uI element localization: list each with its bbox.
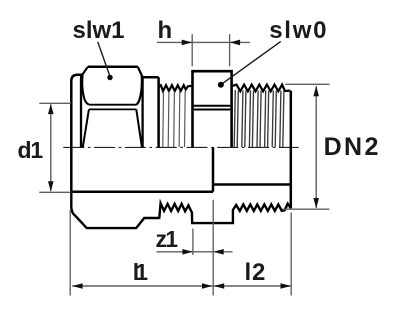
label DN2 xyxy=(324,133,381,162)
union nut collar xyxy=(71,75,82,192)
dimension l1 arrows xyxy=(72,283,212,289)
body bore bottom left xyxy=(71,190,213,193)
label l1 xyxy=(133,259,139,286)
dimension d1 extension lines xyxy=(39,103,71,192)
dimension z1 line xyxy=(157,251,233,253)
dimension l2 line xyxy=(214,285,291,287)
dimension h line xyxy=(157,41,250,43)
leader slw0 xyxy=(222,41,281,84)
dimension h arrows xyxy=(182,40,240,46)
dimension h extension lines xyxy=(192,34,229,66)
dimension d1 line xyxy=(50,105,52,191)
label z1 xyxy=(156,226,177,253)
union nut hex waist line upper xyxy=(89,104,136,106)
label h xyxy=(158,17,173,45)
union nut hex right chamfer xyxy=(138,67,143,77)
label l2 xyxy=(245,259,267,287)
body step shoulder xyxy=(143,76,159,79)
insert hex body xyxy=(193,71,232,147)
leader slw1 xyxy=(98,42,110,75)
nut skirt outline xyxy=(71,192,290,228)
dimension l1 extension line left xyxy=(69,210,71,296)
union nut hex right lower edge xyxy=(136,109,142,147)
left thread flank lines xyxy=(163,91,185,148)
dimension DN2 extension lines xyxy=(282,84,329,209)
outlet end face xyxy=(290,91,293,209)
dimension DN2 line xyxy=(315,86,317,208)
dimension DN2 arrows xyxy=(313,86,319,208)
union nut hex left lower edge xyxy=(83,109,89,147)
leader dot slw0 xyxy=(218,82,224,88)
dimension l1 line xyxy=(72,285,212,287)
label d1 xyxy=(18,137,42,164)
union nut hex right side xyxy=(141,76,143,147)
union nut hex left chamfer and face arc xyxy=(82,67,89,105)
dimension l2 extension line right xyxy=(290,213,292,296)
insert hex waist line upper xyxy=(194,105,231,107)
dimension z1 extension lines xyxy=(193,200,213,296)
body step face xyxy=(157,77,160,147)
leader dot slw1 xyxy=(107,75,112,80)
union nut hex top face xyxy=(88,65,138,68)
dimension l2 arrows xyxy=(214,283,291,289)
dimension d1 arrows xyxy=(48,104,54,192)
union nut hex right face arc xyxy=(136,75,142,104)
right thread flank lines xyxy=(234,90,284,147)
union nut hex left side xyxy=(81,74,83,147)
body bore bottom right xyxy=(213,183,291,186)
label slw1 xyxy=(73,17,125,45)
insert hex waist line lower xyxy=(194,109,231,111)
union nut hex waist line lower xyxy=(89,108,136,110)
label slw0 xyxy=(269,17,328,45)
socket end step xyxy=(212,147,215,191)
left thread crest outline xyxy=(159,85,192,91)
dimension z1 arrows xyxy=(182,249,223,255)
right thread crest outline xyxy=(233,85,290,92)
centerline xyxy=(63,146,298,148)
